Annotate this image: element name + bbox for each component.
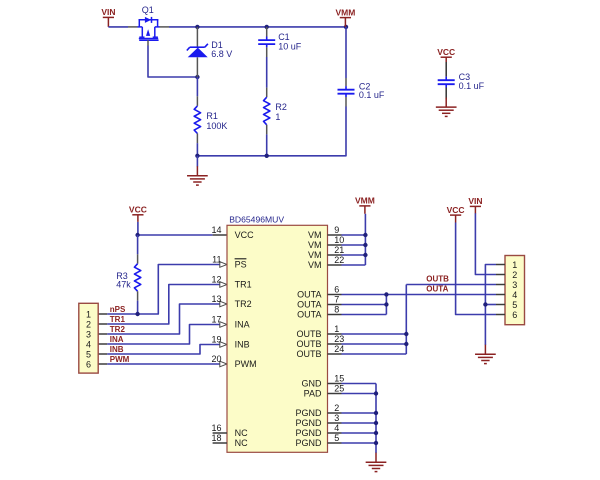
svg-text:OUTA: OUTA: [297, 290, 321, 300]
svg-text:17: 17: [211, 315, 221, 325]
svg-text:VM: VM: [308, 250, 322, 260]
svg-text:1: 1: [86, 309, 91, 319]
svg-text:3: 3: [334, 413, 339, 423]
svg-text:TR2: TR2: [110, 325, 126, 334]
svg-text:5: 5: [512, 300, 517, 310]
svg-text:BD65496MUV: BD65496MUV: [229, 214, 284, 224]
svg-text:47k: 47k: [116, 280, 131, 290]
svg-text:VMM: VMM: [355, 196, 375, 206]
svg-text:6: 6: [512, 310, 517, 320]
svg-text:100K: 100K: [206, 121, 227, 131]
svg-text:23: 23: [334, 334, 344, 344]
svg-text:VM: VM: [308, 230, 322, 240]
svg-text:NC: NC: [235, 438, 248, 448]
svg-text:OUTA: OUTA: [297, 300, 321, 310]
svg-text:PGND: PGND: [295, 408, 322, 418]
svg-text:3: 3: [512, 280, 517, 290]
svg-text:PGND: PGND: [295, 438, 322, 448]
svg-text:24: 24: [334, 344, 344, 354]
svg-text:16: 16: [211, 423, 221, 433]
svg-text:22: 22: [334, 255, 344, 265]
svg-text:6: 6: [334, 285, 339, 295]
svg-text:R2: R2: [275, 102, 287, 112]
svg-text:VCC: VCC: [129, 205, 147, 215]
svg-text:8: 8: [334, 305, 339, 315]
svg-text:13: 13: [211, 294, 221, 304]
svg-text:2: 2: [512, 270, 517, 280]
svg-text:PWM: PWM: [235, 359, 257, 369]
svg-text:0.1 uF: 0.1 uF: [359, 90, 385, 100]
svg-text:PGND: PGND: [295, 428, 322, 438]
svg-text:5: 5: [86, 349, 91, 359]
svg-text:INA: INA: [235, 320, 250, 330]
svg-text:19: 19: [211, 335, 221, 345]
svg-text:11: 11: [212, 255, 221, 265]
svg-text:5: 5: [334, 433, 339, 443]
svg-text:4: 4: [334, 423, 339, 433]
svg-text:25: 25: [334, 384, 344, 394]
svg-text:6.8 V: 6.8 V: [211, 49, 232, 59]
svg-text:7: 7: [334, 295, 339, 305]
svg-text:OUTB: OUTB: [426, 274, 449, 283]
svg-text:NC: NC: [235, 428, 248, 438]
svg-text:1: 1: [512, 260, 517, 270]
svg-text:INB: INB: [235, 340, 250, 350]
svg-text:OUTB: OUTB: [296, 329, 321, 339]
svg-text:PS: PS: [235, 260, 247, 270]
svg-text:TR2: TR2: [235, 299, 252, 309]
svg-text:21: 21: [334, 245, 344, 255]
svg-text:C1: C1: [278, 32, 290, 42]
svg-text:14: 14: [211, 225, 221, 235]
svg-text:Q1: Q1: [142, 5, 154, 15]
svg-text:INA: INA: [110, 335, 124, 344]
svg-text:3: 3: [86, 329, 91, 339]
svg-text:12: 12: [211, 275, 221, 285]
svg-text:2: 2: [86, 319, 91, 329]
svg-text:OUTA: OUTA: [426, 284, 448, 293]
svg-text:10 uF: 10 uF: [278, 42, 302, 52]
svg-text:TR1: TR1: [235, 280, 252, 290]
svg-text:4: 4: [512, 290, 517, 300]
svg-text:OUTB: OUTB: [296, 339, 321, 349]
svg-text:20: 20: [211, 354, 221, 364]
svg-text:GND: GND: [302, 379, 323, 389]
svg-text:18: 18: [211, 433, 221, 443]
svg-text:6: 6: [86, 359, 91, 369]
svg-text:PWM: PWM: [110, 355, 130, 364]
svg-text:10: 10: [334, 235, 344, 245]
svg-text:VCC: VCC: [447, 205, 465, 215]
svg-text:1: 1: [334, 324, 339, 334]
svg-text:15: 15: [334, 374, 344, 384]
svg-text:nPS: nPS: [110, 305, 126, 314]
svg-text:VM: VM: [308, 260, 322, 270]
svg-text:R1: R1: [206, 111, 218, 121]
svg-text:0.1 uF: 0.1 uF: [459, 81, 485, 91]
svg-text:PGND: PGND: [295, 418, 322, 428]
svg-text:OUTA: OUTA: [297, 310, 321, 320]
svg-text:9: 9: [334, 225, 339, 235]
svg-text:VCC: VCC: [235, 230, 255, 240]
svg-text:INB: INB: [110, 345, 124, 354]
svg-text:VMM: VMM: [335, 7, 355, 17]
svg-text:VCC: VCC: [437, 47, 455, 57]
svg-text:VM: VM: [308, 240, 322, 250]
svg-text:VIN: VIN: [101, 7, 115, 17]
svg-text:TR1: TR1: [110, 315, 126, 324]
svg-text:VIN: VIN: [468, 196, 482, 206]
svg-text:4: 4: [86, 339, 91, 349]
svg-text:PAD: PAD: [304, 389, 322, 399]
svg-text:2: 2: [334, 403, 339, 413]
svg-text:OUTB: OUTB: [296, 349, 321, 359]
svg-text:1: 1: [275, 112, 280, 122]
